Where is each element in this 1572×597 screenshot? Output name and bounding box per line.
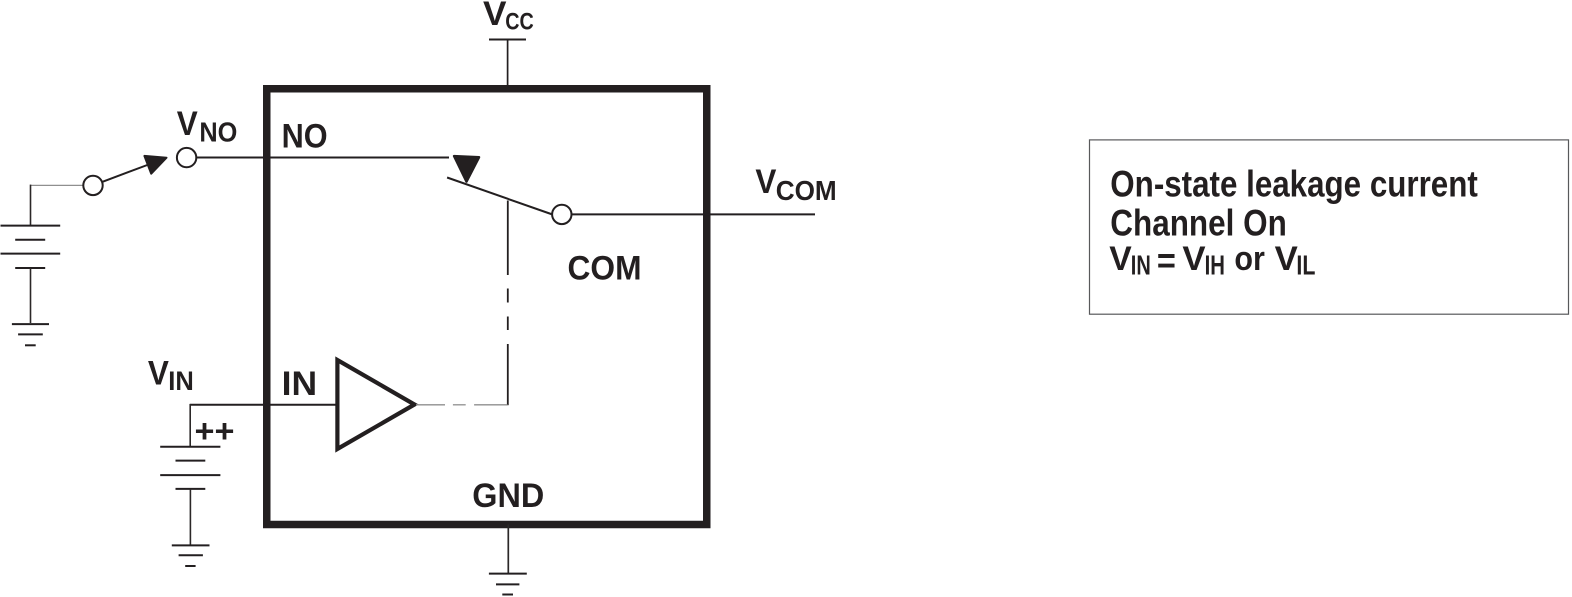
svg-text:COM: COM (776, 175, 837, 206)
svg-text:++: ++ (195, 413, 235, 449)
svg-text:IL: IL (1296, 249, 1315, 280)
svg-text:V: V (755, 163, 776, 201)
svg-text:GND: GND (472, 477, 544, 515)
svg-text:=: = (1157, 240, 1176, 281)
svg-text:IH: IH (1205, 249, 1225, 280)
svg-text:IN: IN (1131, 249, 1151, 280)
svg-text:On-state leakage current: On-state leakage current (1110, 164, 1478, 205)
svg-text:or: or (1234, 240, 1265, 278)
svg-text:NO: NO (282, 118, 328, 156)
svg-text:V: V (148, 355, 169, 393)
svg-text:V: V (1182, 240, 1206, 278)
svg-text:IN: IN (168, 366, 194, 396)
svg-text:CC: CC (505, 8, 534, 35)
svg-text:Channel On: Channel On (1110, 203, 1287, 244)
svg-text:COM: COM (568, 249, 642, 287)
svg-text:V: V (483, 0, 507, 33)
svg-text:V: V (1109, 240, 1132, 278)
svg-text:IN: IN (282, 365, 318, 403)
svg-text:V: V (1275, 240, 1299, 278)
svg-text:V: V (177, 105, 198, 143)
svg-text:NO: NO (199, 117, 237, 148)
